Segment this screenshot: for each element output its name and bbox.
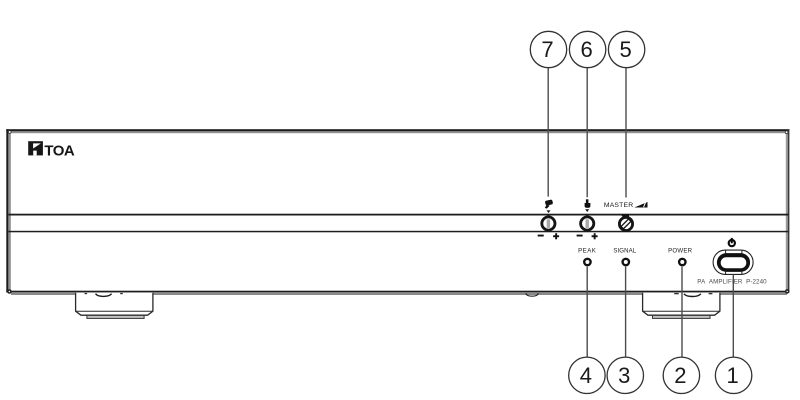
svg-text:PEAK: PEAK (578, 248, 596, 255)
power symbol (729, 238, 735, 246)
marker tick knob 3 (622, 214, 629, 216)
corner screw bottom-left (8, 290, 11, 293)
leader line 3 (625, 267, 627, 358)
svg-text:MASTER: MASTER (604, 202, 634, 209)
svg-text:PA AMPLIFIER P-2240: PA AMPLIFIER P-2240 (697, 278, 767, 285)
minus label knob 1 (538, 235, 544, 237)
callout circle 4 (569, 357, 605, 393)
aux/plug icon above knob 2 (585, 199, 591, 208)
leader line 2 (681, 267, 683, 358)
callout circle 2 (663, 357, 699, 393)
plus label knob 1 (553, 233, 559, 239)
svg-text:4: 4 (580, 363, 592, 388)
minus label knob 2 (577, 235, 583, 237)
panel top edge (6, 129, 789, 131)
callout circle 6 (569, 31, 605, 67)
mic icon above knob 1 (545, 199, 553, 208)
panel right edge (786, 132, 788, 292)
callout circle 1 (715, 357, 751, 393)
POWER LED (679, 259, 685, 265)
callout circle 7 (530, 31, 566, 67)
knob strip bottom line (9, 231, 789, 233)
leader line 7 (547, 68, 549, 197)
leader line 4 (586, 267, 588, 358)
knob strip top line (9, 214, 789, 216)
panel left edge (6, 129, 8, 292)
volume wedge icon (634, 202, 647, 208)
callout circle 5 (608, 31, 644, 67)
marker dot knob 2 (585, 209, 589, 212)
leader line 1 (732, 275, 734, 358)
corner screw top-right (785, 131, 788, 134)
plus label knob 2 (592, 233, 598, 239)
svg-text:POWER: POWER (668, 248, 692, 255)
panel bottom edge (6, 291, 789, 293)
corner screw bottom-right (786, 290, 789, 293)
svg-text:7: 7 (541, 37, 553, 62)
svg-text:3: 3 (618, 363, 630, 388)
foot left (76, 293, 153, 319)
svg-text:5: 5 (619, 37, 631, 62)
power button (713, 250, 753, 274)
knob 3 MASTER (619, 217, 632, 230)
TOA logo mark (28, 141, 43, 155)
knob 1 (542, 217, 555, 230)
svg-text:TOA: TOA (44, 142, 74, 159)
knob 2 (581, 217, 594, 230)
svg-text:6: 6 (580, 37, 592, 62)
svg-text:2: 2 (674, 363, 686, 388)
svg-text:1: 1 (726, 363, 738, 388)
SIGNAL LED (623, 259, 629, 265)
leader line 5 (625, 68, 627, 198)
foot right (643, 293, 720, 319)
svg-text:SIGNAL: SIGNAL (613, 248, 636, 255)
corner screw top-left (8, 131, 11, 134)
callout circle 3 (607, 357, 643, 393)
marker dot knob 1 (547, 210, 551, 213)
PEAK LED (584, 259, 590, 265)
bottom center screw (526, 293, 538, 296)
leader line 6 (586, 68, 588, 197)
